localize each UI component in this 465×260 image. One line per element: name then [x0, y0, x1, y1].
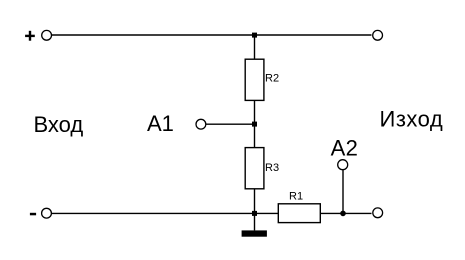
ground — [242, 213, 267, 236]
minus label (- supply) — [30, 213, 36, 216]
svg-text:A2: A2 — [331, 135, 359, 160]
wire R2 to R3 through node A — [254, 100, 256, 147]
wire R1 to A2 node — [320, 212, 371, 214]
wire A2 terminal to bottom rail — [342, 170, 344, 214]
svg-text:R2: R2 — [265, 73, 279, 85]
terminal T2 (top-right, + output) — [373, 30, 383, 40]
svg-text:R1: R1 — [289, 191, 303, 203]
plus label (+ supply) — [25, 31, 35, 41]
svg-text:Вход: Вход — [34, 112, 84, 137]
terminal T3 (bottom-left, - input) — [42, 208, 52, 218]
resistor R3 — [245, 148, 279, 189]
terminal A1 circle — [196, 119, 206, 129]
wire R3 to bottom rail — [254, 189, 256, 214]
resistor R1 — [278, 191, 320, 223]
resistor R2 — [245, 59, 279, 100]
node junction ground (dot) — [252, 211, 257, 216]
svg-text:R3: R3 — [265, 162, 279, 174]
wire A1 to divider node — [206, 123, 255, 125]
wire top rail — [52, 34, 372, 36]
terminal A2 circle — [338, 160, 348, 170]
wire from top rail to R2 — [254, 35, 256, 60]
wire bottom rail left segment — [52, 212, 279, 214]
node junction A2 (dot) — [340, 211, 346, 217]
node junction A1 tap (dot) — [252, 122, 257, 127]
terminal T1 (top-left, + input) — [42, 30, 52, 40]
svg-text:Изход: Изход — [380, 106, 444, 131]
terminal T4 (bottom-right, output) — [373, 208, 383, 218]
node junction top (dot on + rail) — [252, 33, 257, 38]
svg-text:A1: A1 — [147, 111, 174, 136]
